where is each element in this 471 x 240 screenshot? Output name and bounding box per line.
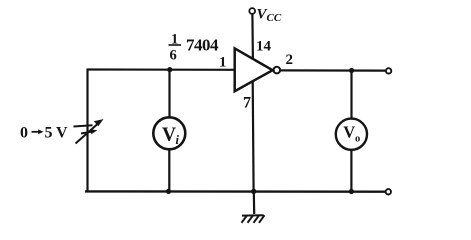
inverter output bubble (274, 67, 281, 74)
junction dot: V_o on bottom rail (349, 189, 354, 194)
wire: bottom rail (85, 190, 386, 193)
svg-text:V: V (56, 125, 68, 142)
label: V_CC (257, 7, 282, 25)
junction dot: V_I on bottom rail (166, 189, 171, 194)
svg-text:7: 7 (243, 95, 251, 112)
svg-text:0: 0 (20, 125, 28, 142)
wire: V_o branch lower (350, 150, 352, 192)
label: 1/6 7404 (169, 32, 220, 64)
svg-text:o: o (355, 134, 360, 145)
svg-text:1: 1 (219, 55, 227, 71)
wire: bottom rail to ground (253, 192, 256, 215)
wire: V_I branch lower (168, 149, 170, 191)
svg-text:V: V (343, 122, 355, 141)
ground (242, 215, 265, 223)
wire: pin 14 to Vcc (251, 14, 254, 60)
terminal: output upper (386, 68, 391, 73)
wire: top rail from left wire to inverter input (87, 68, 235, 71)
wire: inverter output to right terminal (280, 69, 386, 71)
svg-text:2: 2 (286, 52, 294, 68)
svg-text:i: i (176, 133, 180, 147)
wire: V_I branch upper (168, 70, 170, 118)
svg-text:7404: 7404 (186, 36, 219, 55)
wire: V_o branch upper (350, 71, 352, 119)
svg-text:6: 6 (170, 48, 177, 64)
svg-text:V: V (162, 124, 176, 145)
terminal: output lower (386, 189, 391, 194)
svg-text:5: 5 (45, 125, 53, 142)
Vcc terminal (249, 8, 255, 14)
wire: left vertical wire (86, 69, 88, 192)
voltmeter V_I (153, 117, 185, 149)
svg-text:CC: CC (267, 12, 282, 24)
junction dot: pin7/ground on bottom rail (251, 189, 256, 194)
variable-source arrow through left wire (74, 120, 103, 144)
svg-text:14: 14 (256, 39, 272, 55)
op-amp style inverter U1 (1/6 7404) triangle (235, 48, 273, 91)
junction dot: V_o tap on output rail (349, 68, 354, 73)
voltmeter V_o (336, 119, 367, 150)
label: 0->5 V source value (20, 125, 68, 142)
wire: pin 7 down to bottom rail (252, 81, 255, 192)
junction dot: V_I tap on top rail (167, 67, 172, 72)
